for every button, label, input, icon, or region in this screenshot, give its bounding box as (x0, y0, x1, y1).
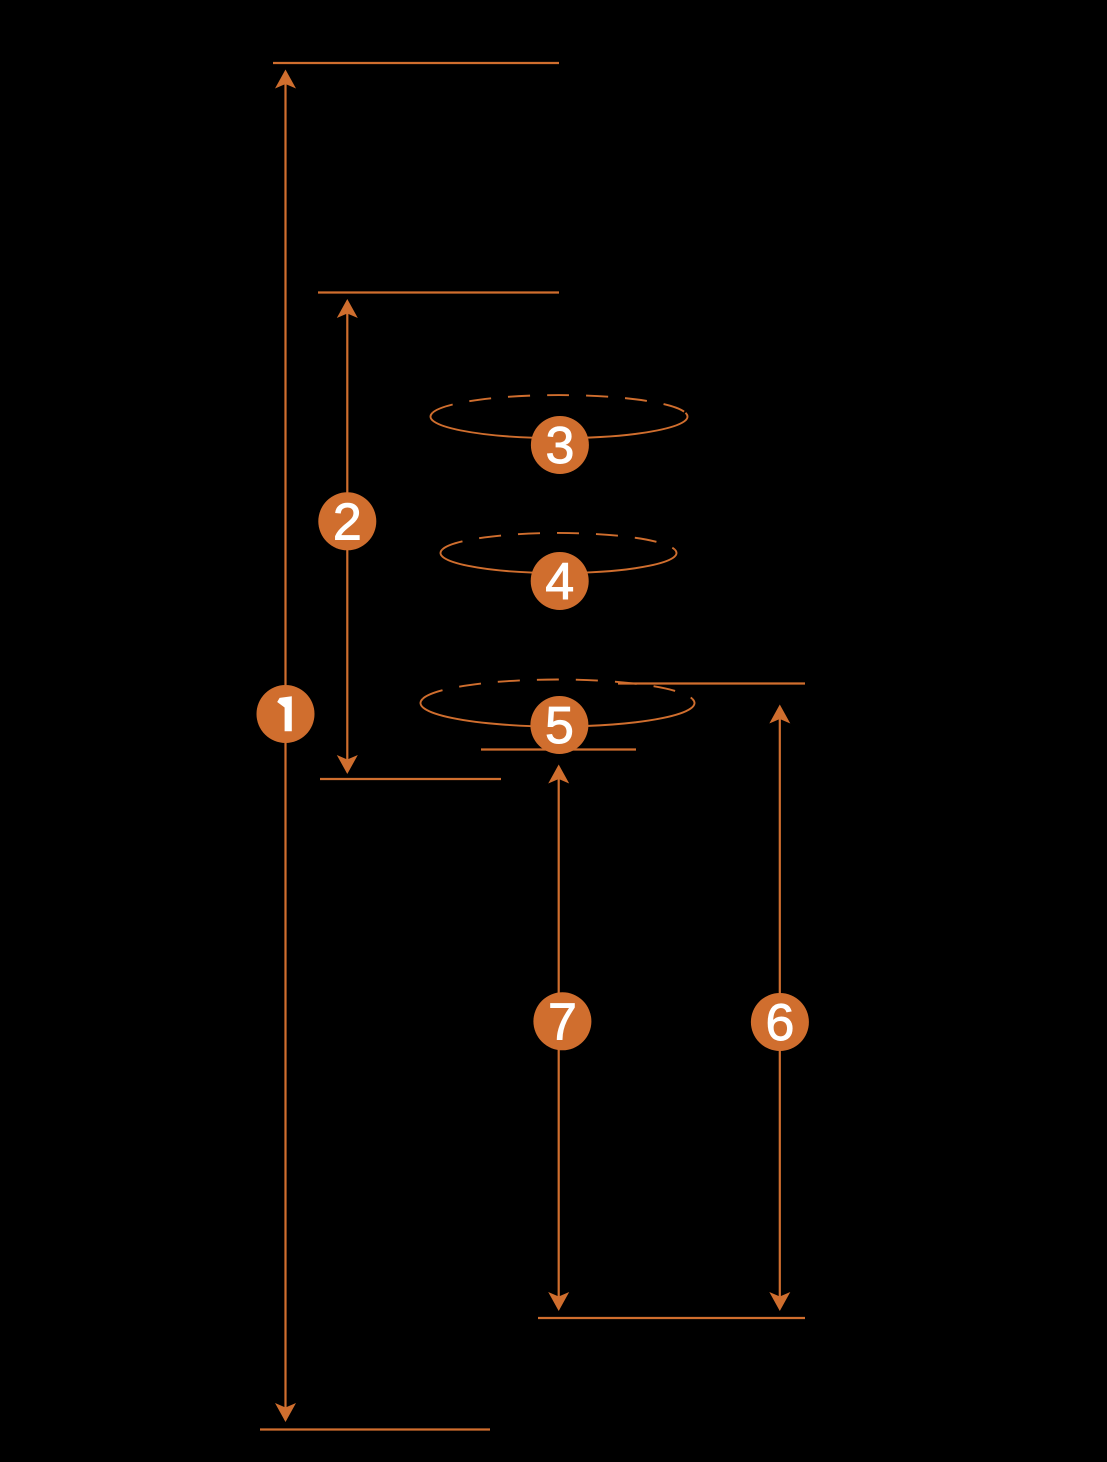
number badge 7 (533, 992, 591, 1051)
girth ellipse 4 (waist) lower solid arc (441, 550, 677, 573)
reference line (measurement 2 bottom) (320, 778, 501, 780)
arrowhead 1 bottom (275, 1403, 296, 1422)
girth ellipse 5 upper dashed arc (423, 679, 693, 698)
number badge 2 (318, 492, 376, 551)
reference line (measurement 6 top) (618, 682, 805, 684)
number badge 5 (530, 696, 588, 755)
number badge 1 (257, 685, 315, 743)
arrowhead 2 top (337, 299, 358, 318)
number badge 3 (531, 416, 589, 475)
girth ellipse 3 (chest) lower solid arc (431, 413, 688, 438)
svg-text:7: 7 (548, 993, 577, 1051)
arrowhead 6 bottom (769, 1292, 790, 1311)
arrowhead 1 top (275, 70, 296, 89)
bottom reference line (measurement 1 bottom) (260, 1428, 490, 1430)
arrowhead 2 bottom (337, 755, 358, 774)
top reference line (measurement 1 top) (273, 62, 559, 64)
svg-text:6: 6 (765, 994, 794, 1052)
svg-text:3: 3 (545, 417, 574, 475)
number badge 4 (531, 552, 589, 611)
girth ellipse 5 (hip) lower solid arc (421, 699, 695, 727)
dimension arrow 2 stem (346, 301, 348, 772)
arrowhead 7 bottom (548, 1292, 569, 1311)
svg-text:4: 4 (545, 553, 574, 611)
girth ellipse 4 upper dashed arc (442, 533, 674, 550)
dimension arrow 6 stem (779, 707, 781, 1308)
arrowhead 7 top (548, 765, 569, 784)
svg-text:5: 5 (545, 697, 574, 755)
dimension arrow 1 stem (284, 72, 286, 1420)
reference line (measurement 2 top) (318, 291, 559, 293)
dimension arrow 7 stem (558, 767, 560, 1308)
girth ellipse 3 upper dashed arc (433, 395, 686, 413)
number badge 6 (751, 993, 809, 1052)
reference line (measurement 7 top, under badge 5) (481, 748, 636, 750)
arrowhead 6 top (769, 705, 790, 724)
svg-text:2: 2 (333, 493, 362, 551)
reference line (measurements 6 and 7 bottom) (538, 1317, 805, 1319)
